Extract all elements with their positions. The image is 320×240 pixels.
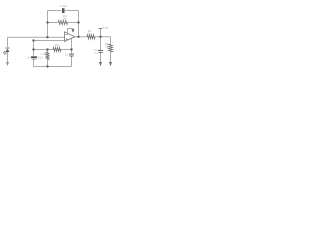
supply arrow (op-amp V+) [72,29,75,32]
capacitor C3 (x71) [69,54,74,56]
resistor R2 (bias horizontal) zigzag [53,48,61,52]
svg-text:Vout: Vout [102,26,108,30]
svg-text:10n: 10n [38,55,43,59]
wire feedback top rail [48,10,79,12]
wire inverting input line [8,36,65,38]
wire feedback left rail [47,11,49,38]
terminal Vout [99,28,103,30]
wire output line [75,36,111,38]
svg-text:1u: 1u [65,52,69,56]
svg-text:15k: 15k [55,43,60,47]
resistor R5 (vertical x110) zigzag [109,44,113,52]
wire non-inverting input line [34,40,65,42]
ground arrow (C4) [99,62,102,66]
capacitor C2 (x33) [31,57,37,59]
ground arrow (photodiode) [6,62,9,66]
wire C4 column x100 [100,37,102,62]
capacitor C1 (feedback) [62,8,65,13]
wire bias line y49 [34,49,72,51]
photodiode D1 [3,48,9,55]
capacitor C4 (x100) [98,51,103,53]
op-amp U1 [65,32,75,42]
wire Vout stub [100,29,102,37]
wire photodiode column [7,37,9,62]
resistor R1 (feedback) zigzag [58,21,68,25]
wire op-amp supply pin [68,29,74,34]
svg-text:1M: 1M [63,17,68,21]
wire feedback right rail [78,11,80,37]
svg-text:1u: 1u [27,55,31,59]
svg-text:1u: 1u [94,51,98,55]
wire feedback mid rail [48,22,79,24]
svg-text:3.3pF: 3.3pF [60,4,68,8]
wire C3 column x71 [71,38,73,66]
resistor R3 (vertical x47) zigzag [46,52,50,60]
junction dots [32,21,101,67]
wire bottom rail [34,66,72,68]
wire R5 column x110 [110,37,112,62]
ground arrow (R5) [109,62,112,66]
wire bias vertical x33 [33,41,35,67]
resistor R4 (output horizontal) zigzag [87,35,95,39]
wire R3 leads [47,50,49,67]
